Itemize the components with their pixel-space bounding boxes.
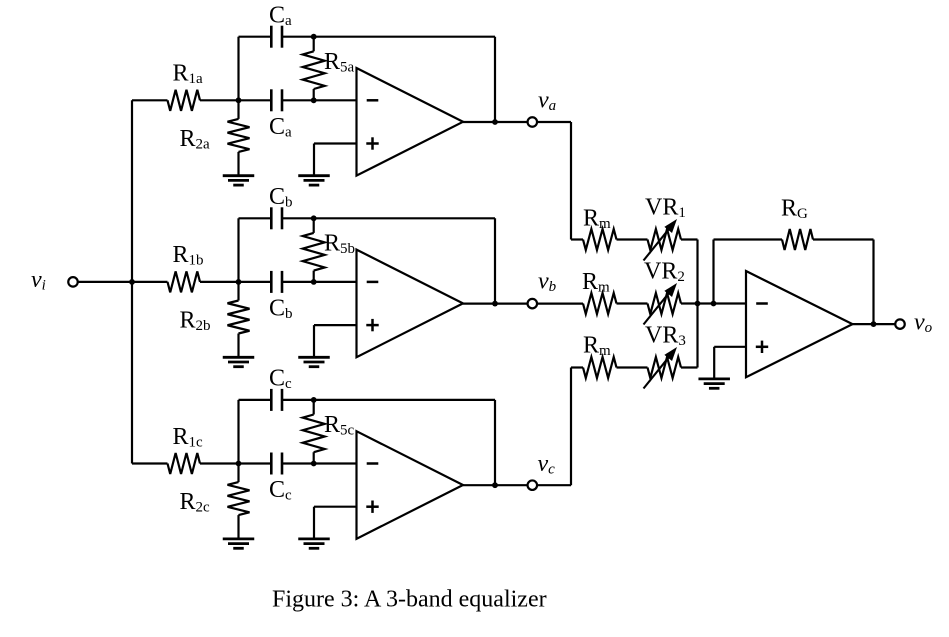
resistor Rm (middle): [583, 293, 617, 314]
label Rm top: [583, 206, 611, 233]
node junction at R2c top: [236, 461, 242, 467]
label vi: [31, 267, 46, 294]
wire vc to VR3 row: [537, 368, 571, 486]
junction feedback to output: [492, 119, 498, 125]
capacitor Cc series: [271, 453, 282, 475]
svg-text:Cb: Cb: [269, 184, 293, 211]
svg-text:VR1: VR1: [645, 195, 686, 222]
junction feedback to output: [492, 482, 498, 488]
variable resistor VR1: [644, 219, 682, 261]
label R1b: [173, 242, 204, 269]
op-amp summing non-inverting pin marker: [756, 341, 768, 353]
ground under R2a: [223, 176, 255, 185]
wire input row stage a: [132, 99, 168, 101]
wire top feedback row right: [282, 399, 495, 401]
wire RG branch riser: [712, 240, 714, 304]
label R2a: [180, 126, 211, 153]
op-amp stage a: [357, 68, 464, 176]
wire Rm to VR2: [617, 302, 648, 304]
op-amp stage c: [357, 431, 464, 539]
wire summing output: [853, 323, 896, 325]
op-amp b non-inverting pin marker: [366, 319, 378, 331]
wire input row stage c: [132, 462, 168, 464]
label figure caption: [272, 587, 547, 613]
node vb terminal: [528, 299, 538, 309]
op-amp a non-inverting pin marker: [366, 137, 378, 149]
label vc: [538, 451, 556, 478]
resistor Rm (bottom): [583, 357, 617, 378]
wire riser node to top feedback row: [237, 218, 239, 282]
svg-text:Cc: Cc: [269, 366, 292, 393]
wire VR2 to summing input: [681, 302, 746, 304]
wire R1c to node: [200, 462, 239, 464]
svg-text:R5c: R5c: [324, 412, 355, 439]
label Cc series: [269, 477, 292, 504]
svg-text:Ca: Ca: [269, 2, 292, 29]
label RG: [781, 196, 808, 223]
ground under R2b: [223, 357, 255, 366]
wire summing bus vertical: [696, 240, 698, 368]
wire row1 lead: [571, 238, 583, 240]
svg-text:Rm: Rm: [582, 269, 610, 296]
label R5c: [324, 412, 355, 439]
capacitor Cb feedback: [271, 207, 282, 229]
resistor R5c: [303, 400, 325, 464]
svg-text:vo: vo: [914, 310, 933, 337]
variable resistor VR2: [644, 283, 682, 325]
wire series cap to inverting input: [282, 462, 357, 464]
wire riser node to top feedback row: [237, 400, 239, 464]
svg-text:Cc: Cc: [269, 477, 292, 504]
wire top feedback row left: [239, 217, 272, 219]
resistor R5b: [303, 218, 325, 282]
svg-text:Rm: Rm: [583, 206, 611, 233]
junction at R5b top: [311, 215, 317, 221]
svg-text:R2b: R2b: [180, 308, 211, 335]
wire top feedback row left: [239, 399, 272, 401]
wire top feedback row right: [282, 36, 495, 38]
variable resistor VR3: [644, 347, 682, 389]
ground at op-amp c non-inverting input: [298, 539, 330, 548]
label Rm middle: [582, 269, 610, 296]
ground at summing op-amp: [698, 379, 730, 388]
wire VR1 to bus: [681, 238, 698, 240]
resistor R2a: [228, 100, 250, 175]
resistor R1c: [168, 453, 201, 474]
wire feedback drop: [494, 218, 496, 303]
junction at R5a bottom: [311, 97, 317, 103]
label Cc feedback: [269, 366, 292, 393]
svg-text:R2a: R2a: [180, 126, 211, 153]
label R1a: [173, 61, 204, 88]
svg-text:R5b: R5b: [324, 231, 355, 258]
wire vi to input bus: [78, 281, 132, 283]
wire summing non-inverting to ground: [714, 347, 746, 379]
junction at R5a top: [311, 34, 317, 40]
node junction at R2a top: [236, 97, 242, 103]
label Cb feedback: [269, 184, 293, 211]
resistor R2b: [228, 282, 250, 357]
wire op-amp b output: [463, 303, 528, 305]
junction summing bus: [695, 301, 701, 307]
junction at R5c bottom: [311, 461, 317, 467]
wire RG row lead: [714, 238, 783, 240]
wire feedback drop: [494, 400, 496, 485]
node vi input terminal: [68, 277, 78, 287]
ground at op-amp b non-inverting input: [298, 357, 330, 366]
wire node to series capacitor Cc: [239, 462, 272, 464]
op-amp b inverting pin marker: [367, 281, 379, 284]
resistor R2c: [228, 464, 250, 539]
wire input row stage b: [132, 281, 168, 283]
op-amp stage b: [357, 250, 464, 358]
node vo output terminal: [895, 319, 905, 329]
label R2c: [180, 489, 211, 516]
label Cb series: [269, 296, 293, 323]
wire non-inverting input to ground: [314, 144, 357, 176]
junction RG branch: [711, 301, 717, 307]
op-amp c inverting pin marker: [367, 462, 379, 465]
junction at R5c top: [311, 397, 317, 403]
svg-text:vi: vi: [31, 267, 46, 294]
svg-text:vb: vb: [538, 269, 557, 296]
wire non-inverting input to ground: [314, 507, 357, 539]
node vc terminal: [528, 480, 538, 490]
label Rm bottom: [583, 333, 611, 360]
resistor Rm (top): [583, 229, 617, 250]
label R5a: [324, 49, 355, 76]
op-amp summing inverting pin marker: [756, 302, 768, 305]
svg-text:Figure 3: A 3-band equalizer: Figure 3: A 3-band equalizer: [272, 587, 547, 613]
label R1c: [173, 424, 204, 451]
wire row3 lead: [571, 366, 583, 368]
svg-text:R1b: R1b: [173, 242, 204, 269]
wire va to VR1 row: [537, 122, 571, 240]
svg-text:Ca: Ca: [269, 114, 292, 141]
wire RG output drop: [872, 240, 874, 325]
op-amp c non-inverting pin marker: [366, 501, 378, 513]
label VR1: [645, 195, 686, 222]
capacitor Cc feedback: [271, 389, 282, 411]
wire op-amp c output: [463, 484, 528, 486]
junction at R5b bottom: [311, 279, 317, 285]
junction feedback to output: [492, 301, 498, 307]
wire series cap to inverting input: [282, 281, 357, 283]
wire RG to output drop: [813, 238, 874, 240]
wire R1b to node: [200, 281, 239, 283]
resistor R1a: [168, 90, 201, 111]
wire top feedback row left: [239, 36, 272, 38]
ground at op-amp a non-inverting input: [298, 176, 330, 185]
label R5b: [324, 231, 355, 258]
capacitor Ca series: [271, 89, 282, 111]
svg-text:vc: vc: [538, 451, 556, 478]
ground under R2c: [223, 539, 255, 548]
label Ca feedback: [269, 2, 292, 29]
label va: [538, 88, 556, 115]
capacitor Ca feedback: [271, 26, 282, 48]
wire VR3 to bus: [681, 366, 698, 368]
label vo: [914, 310, 933, 337]
wire node to series capacitor Cb: [239, 281, 272, 283]
svg-text:R1a: R1a: [173, 61, 204, 88]
wire R1a to node: [200, 99, 239, 101]
junction output feedback: [871, 321, 877, 327]
wire op-amp a output: [463, 121, 528, 123]
wire top feedback row right: [282, 217, 495, 219]
svg-text:RG: RG: [781, 196, 808, 223]
svg-text:VR2: VR2: [644, 259, 685, 286]
wire Rm to VR3: [617, 366, 648, 368]
wire node to series capacitor Ca: [239, 99, 272, 101]
wire feedback drop: [494, 37, 496, 122]
capacitor Cb series: [271, 271, 282, 293]
svg-text:R5a: R5a: [324, 49, 355, 76]
op-amp summing U4: [746, 271, 853, 377]
svg-text:R2c: R2c: [180, 489, 211, 516]
label VR2: [644, 259, 685, 286]
node va terminal: [528, 117, 538, 127]
wire vb to summing row: [537, 303, 583, 305]
label R2b: [180, 308, 211, 335]
wire Rm to VR1: [617, 238, 648, 240]
svg-text:VR3: VR3: [645, 323, 686, 350]
wire non-inverting input to ground: [314, 325, 357, 357]
label vb: [538, 269, 557, 296]
svg-text:R1c: R1c: [173, 424, 204, 451]
resistor R1b: [168, 271, 201, 292]
svg-text:Rm: Rm: [583, 333, 611, 360]
label VR3: [645, 323, 686, 350]
svg-text:va: va: [538, 88, 556, 115]
junction vi bus: [129, 279, 135, 285]
op-amp a inverting pin marker: [367, 99, 379, 102]
wire riser node to top feedback row: [237, 37, 239, 101]
resistor R5a: [303, 37, 325, 101]
svg-text:Cb: Cb: [269, 296, 293, 323]
resistor RG: [782, 229, 813, 250]
wire series cap to inverting input: [282, 99, 357, 101]
wire input bus vertical: [131, 100, 133, 463]
label Ca series: [269, 114, 292, 141]
node junction at R2b top: [236, 279, 242, 285]
